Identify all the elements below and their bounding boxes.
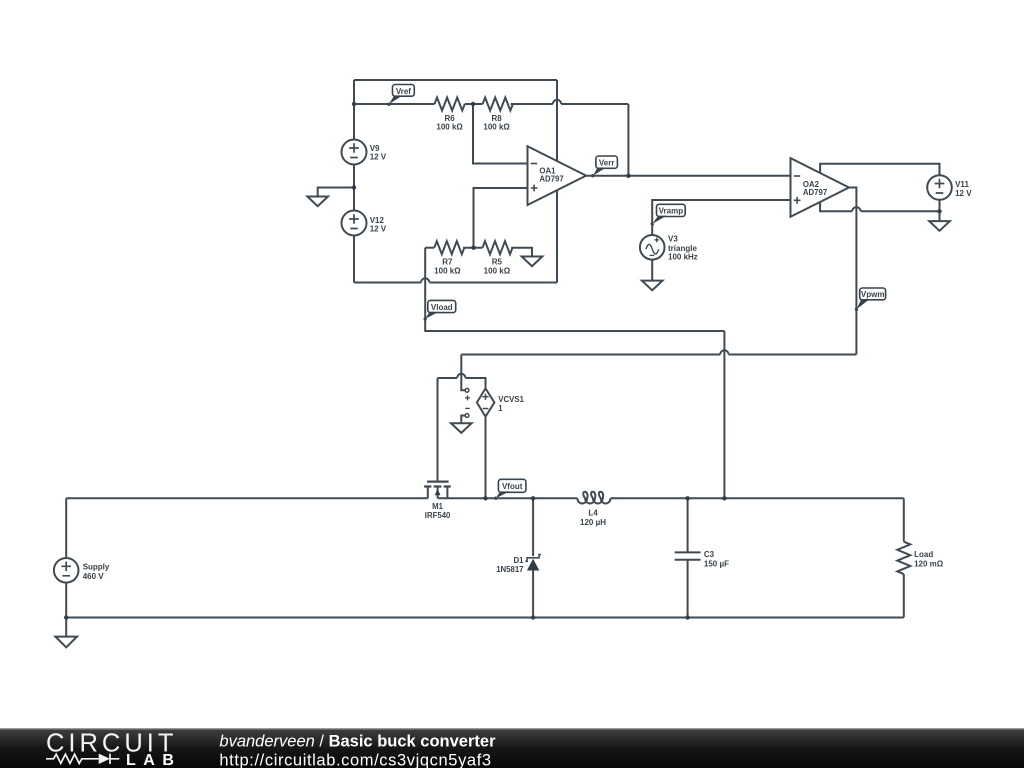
node OA1 output / feedback junction — [626, 174, 630, 178]
node C3 top on rail — [685, 496, 689, 500]
resistor R6 — [435, 98, 465, 111]
wire load bottom — [903, 574, 905, 617]
voltage source V3 triangle wave — [640, 235, 665, 260]
resistor R8 — [483, 98, 513, 111]
VCVS1 control plus symbol — [465, 395, 470, 400]
svg-text:R8: R8 — [491, 114, 502, 123]
wire Vload vertical and horizontal run — [425, 248, 724, 331]
svg-text:120 µH: 120 µH — [580, 518, 606, 527]
svg-text:460 V: 460 V — [83, 572, 105, 581]
svg-text:LAB: LAB — [126, 752, 181, 768]
svg-text:V11: V11 — [955, 180, 969, 189]
op-amp U OA1 triangle — [528, 146, 587, 205]
wire ground tap from V9/V12 midpoint — [318, 188, 354, 197]
svg-text:12 V: 12 V — [370, 224, 387, 233]
voltage source Supply — [54, 558, 79, 583]
capacitor C3 plates — [675, 552, 701, 559]
wire load top — [903, 498, 905, 541]
wire Vload vertical down to output node — [723, 331, 725, 498]
wire C3 verticals — [687, 498, 689, 617]
net label Vref — [387, 85, 414, 106]
svg-text:VCVS1: VCVS1 — [498, 395, 524, 404]
OA1 minus pin symbol — [531, 163, 538, 165]
ground (V11) — [929, 211, 950, 231]
svg-text:1N5817: 1N5817 — [496, 565, 523, 574]
svg-text:12 V: 12 V — [370, 152, 387, 161]
VCVS1 plus symbol inside — [482, 394, 488, 400]
wire R5 to ground — [511, 248, 532, 257]
MOSFET M1 gate bar — [427, 481, 449, 483]
wire top rail of op-amp supply loop — [354, 79, 557, 81]
svg-text:AD797: AD797 — [803, 188, 827, 197]
inductor L4 — [577, 492, 610, 504]
OA2 plus pin symbol — [794, 197, 801, 204]
ground (Supply) — [55, 618, 77, 648]
diode D1 triangle — [527, 559, 539, 571]
dependent source VCVS1 diamond — [477, 388, 495, 416]
wire VCVS1 control minus to ground — [461, 416, 465, 424]
wire V3 to ground — [651, 260, 653, 281]
svg-text:Vramp: Vramp — [659, 207, 684, 216]
wire VCVS1 output top with hop over control wire — [438, 374, 486, 389]
svg-text:Vpwm: Vpwm — [861, 290, 885, 299]
svg-text:150 µF: 150 µF — [704, 559, 729, 568]
svg-text:12 V: 12 V — [955, 189, 972, 198]
svg-text:Vfout: Vfout — [502, 482, 523, 491]
node supply midpoint ground tap — [352, 185, 356, 189]
wire left vertical (V9/V12 stack) — [353, 80, 355, 283]
ground (VCVS1 control) — [451, 423, 472, 433]
wire Vpwm down to VCVS1 control plus — [461, 355, 465, 391]
svg-text:100 kΩ: 100 kΩ — [484, 266, 511, 275]
svg-text:Supply: Supply — [83, 563, 110, 572]
node supply bottom on return rail — [64, 615, 68, 619]
OA1 plus pin symbol — [531, 185, 538, 192]
voltage source V11 — [927, 175, 952, 200]
node D1 top on rail — [531, 496, 535, 500]
wire VCVS1 bottom to Vfout rail — [485, 417, 487, 499]
svg-text:R7: R7 — [442, 258, 453, 267]
VCVS1 control minus terminal circle — [465, 414, 469, 418]
net label Vload — [424, 300, 456, 320]
svg-text:http://circuitlab.com/cs3vjqcn: http://circuitlab.com/cs3vjqcn5yaf3 — [219, 751, 491, 768]
net label Vpwm — [855, 288, 886, 311]
wire bottom return rail — [66, 617, 904, 619]
MOSFET M1 legs — [428, 487, 448, 499]
wire R8 to feedback corner with hop over x=557 — [511, 100, 629, 104]
svg-text:Vref: Vref — [396, 87, 411, 96]
wire bottom rail of op-amp supply loop with hop over Vload wire — [354, 278, 557, 282]
wire between R6 and R8 — [465, 103, 483, 105]
MOSFET M1 channel segments — [424, 485, 451, 487]
node VCVS1 output on rail — [483, 496, 487, 500]
voltage source V9 — [342, 140, 367, 165]
diode D1 schottky cathode bar — [525, 554, 541, 561]
svg-text:Verr: Verr — [599, 159, 615, 168]
wire supply vertical bottom — [65, 583, 67, 618]
svg-text:Load: Load — [914, 550, 933, 559]
svg-text:bvanderveen / Basic buck conve: bvanderveen / Basic buck converter — [219, 733, 496, 751]
VCVS1 control minus symbol — [465, 407, 470, 409]
resistor Load — [897, 542, 910, 574]
svg-text:120 mΩ: 120 mΩ — [914, 559, 944, 568]
VCVS1 control plus terminal circle — [465, 388, 469, 392]
node Vload vertical on rail — [722, 496, 726, 500]
wire OA2 output down to Vpwm run — [849, 188, 856, 355]
net label Vfout — [494, 479, 526, 500]
wire VCVS1 gate drive down to M1 gate — [437, 378, 439, 482]
wire R7/R5 net y=247.7 — [425, 247, 434, 249]
ground (V3) — [642, 281, 663, 291]
resistor R7 — [434, 241, 464, 254]
node Vref tap on left rail — [352, 102, 356, 106]
wire feedback vertical down to OA1 output — [627, 104, 629, 176]
wire Vref net y=104 — [354, 103, 435, 105]
svg-text:M1: M1 — [432, 502, 443, 511]
svg-text:R6: R6 — [444, 114, 455, 123]
svg-text:100 kΩ: 100 kΩ — [483, 123, 510, 132]
MOSFET M1 body arrow — [435, 489, 441, 496]
svg-text:L4: L4 — [588, 509, 598, 518]
svg-text:IRF540: IRF540 — [425, 511, 451, 520]
wire main rail left section (Supply to M1 drain) — [66, 497, 428, 499]
svg-text:100 kΩ: 100 kΩ — [434, 266, 461, 275]
voltage source V12 — [342, 211, 367, 236]
wire OA2 V- power stub and rail with hop over output wire — [820, 202, 939, 211]
svg-text:C3: C3 — [704, 550, 715, 559]
OA2 minus pin symbol — [794, 175, 801, 177]
node C3 bottom on return rail — [685, 615, 689, 619]
svg-text:Vload: Vload — [431, 303, 453, 312]
op-amp U OA2 triangle — [791, 158, 850, 217]
ground (R5) — [522, 257, 543, 267]
node R7/R5 junction — [471, 246, 475, 250]
wire main rail from M1 to L4 — [438, 497, 578, 499]
svg-text:1: 1 — [498, 404, 503, 413]
VCVS1 minus symbol inside — [483, 408, 489, 410]
ground (supply midpoint) — [307, 197, 328, 207]
svg-text:AD797: AD797 — [539, 174, 563, 183]
svg-text:V3: V3 — [668, 235, 678, 244]
svg-text:100 kΩ: 100 kΩ — [436, 123, 463, 132]
resistor R5 — [483, 241, 513, 254]
wire D1 anode/cathode verticals — [532, 498, 534, 617]
wire OA1 inverting input from R6/R8 node — [473, 104, 528, 164]
wire main rail from L4 to load — [611, 497, 904, 499]
wire between R7 and R5 — [463, 247, 483, 249]
wire supply vertical top — [65, 498, 67, 558]
wire OA1 output to OA2 inverting input (Verr net) — [586, 175, 790, 177]
wire OA1 V- power stub — [556, 191, 558, 283]
node D1 bottom on return rail — [531, 615, 535, 619]
svg-text:R5: R5 — [492, 258, 503, 267]
node R6/R8 junction — [471, 102, 475, 106]
svg-text:100 kHz: 100 kHz — [668, 252, 698, 261]
wire Vpwm horizontal run with hop over Vload vertical — [461, 350, 856, 354]
net label Vramp — [651, 204, 686, 225]
wire OA1 non-inverting input from R7/R5 node — [474, 188, 528, 248]
net label Verr — [591, 156, 617, 177]
wire OA1 V+ power stub — [556, 80, 558, 161]
wire OA2 V+ power stub to V11 — [820, 164, 939, 176]
node V11 minus / ground junction — [937, 209, 941, 213]
wire V11 bottom to V- rail — [939, 200, 941, 212]
svg-text:D1: D1 — [514, 556, 525, 565]
wire OA2 non-inverting input from V3 — [652, 200, 790, 235]
